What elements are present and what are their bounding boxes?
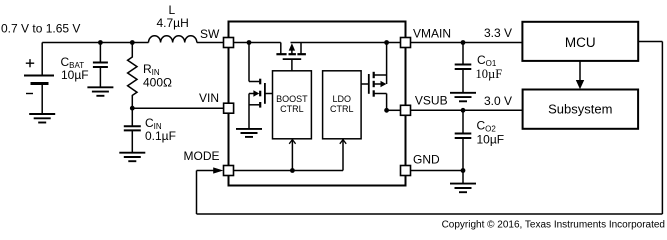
block: LDO CTRL — [323, 71, 362, 139]
ground (GND net) — [450, 184, 476, 193]
wire: Q2 to VMAIN pin — [291, 42, 401, 44]
svg-text:CTRL: CTRL — [280, 104, 304, 114]
node: SW internal junction — [247, 40, 252, 45]
node: C_BAT junction — [98, 40, 103, 45]
wire: arrow into BOOST CTRL — [289, 140, 295, 144]
svg-text:10µF: 10µF — [61, 68, 89, 82]
wire: MODE loop left vertical — [196, 171, 198, 215]
svg-text:MCU: MCU — [565, 35, 596, 50]
wire: battery positive rail to SW — [42, 42, 223, 44]
transistor Q2 boost rectifier FET — [276, 43, 306, 71]
resistor R_IN — [128, 43, 137, 109]
svg-text:Copyright © 2016, Texas Instru: Copyright © 2016, Texas Instruments Inco… — [442, 219, 665, 230]
svg-text:0.7 V to 1.65 V: 0.7 V to 1.65 V — [1, 22, 80, 36]
capacitor C_O1 — [455, 43, 472, 93]
wire: MODE loop right vertical — [661, 42, 663, 215]
svg-text:3.0 V: 3.0 V — [484, 94, 512, 108]
ground (internal, Q1 source) — [236, 129, 262, 137]
pin VMAIN — [401, 38, 411, 48]
svg-text:LDO: LDO — [333, 94, 352, 104]
capacitor C_IN — [124, 108, 141, 153]
pin MODE — [224, 166, 234, 176]
ground (C_BAT) — [87, 87, 113, 96]
node: R_IN junction — [130, 40, 135, 45]
transistor Q1 low-side NMOS — [249, 43, 273, 129]
wire: VSUB internal to pin — [387, 109, 401, 111]
wire: MODE pin internal distribution — [234, 139, 344, 170]
svg-text:0.1µF: 0.1µF — [145, 129, 176, 143]
wire: GND pin to ground — [411, 170, 464, 172]
svg-text:Subsystem: Subsystem — [548, 101, 612, 116]
svg-text:CTRL: CTRL — [330, 104, 354, 114]
svg-text:VSUB: VSUB — [415, 94, 448, 108]
svg-text:10µF: 10µF — [476, 67, 503, 81]
transistor Q3 LDO pass FET — [361, 43, 387, 111]
pin SW — [224, 38, 234, 48]
ground (battery) — [29, 114, 55, 123]
battery B1 — [24, 43, 54, 115]
node: C_O1 junction — [461, 40, 466, 45]
wire: MCU to Subsystem arrow — [579, 61, 581, 81]
wire: MODE feedback into MODE pin with arrow — [197, 170, 215, 172]
pin VIN — [224, 103, 234, 113]
node: VIN net wire — [130, 106, 135, 111]
svg-text:3.3 V: 3.3 V — [484, 26, 512, 40]
ground (C_O1) — [450, 93, 476, 102]
wire: MODE loop bottom horizontal — [197, 213, 663, 215]
node: C_O2 junction — [461, 108, 466, 113]
svg-text:MODE: MODE — [184, 149, 220, 163]
wire: VSUB to Subsystem — [411, 109, 523, 111]
node: VMAIN internal junction — [384, 40, 389, 45]
wire: VMAIN to MCU — [411, 42, 523, 44]
svg-text:SW: SW — [200, 27, 220, 41]
pin VSUB — [401, 105, 411, 115]
node: MODE internal junction — [290, 168, 295, 173]
svg-text:L: L — [169, 3, 176, 17]
wire: VIN node to VIN pin — [132, 107, 223, 109]
capacitor C_O2 — [455, 110, 472, 170]
block: MCU — [522, 22, 638, 61]
svg-text:4.7µH: 4.7µH — [157, 16, 189, 30]
pin GND — [401, 166, 411, 176]
wire: SW pin to boost FETs — [234, 42, 281, 44]
block: Subsystem — [523, 90, 639, 129]
ground (C_IN) — [119, 153, 145, 162]
block: BOOST CTRL — [273, 71, 312, 139]
svg-text:400Ω: 400Ω — [143, 76, 172, 90]
IC U1 body — [229, 22, 406, 186]
wire: MCU to MODE loop — [638, 41, 662, 43]
inductor L — [149, 36, 197, 43]
wire: GND down lead — [462, 171, 464, 184]
svg-text:VIN: VIN — [199, 91, 219, 105]
node: GND junction — [461, 168, 466, 173]
svg-text:GND: GND — [413, 152, 440, 166]
svg-text:BOOST: BOOST — [276, 94, 308, 104]
svg-text:10µF: 10µF — [477, 132, 505, 146]
capacitor C_BAT — [93, 43, 108, 88]
wire: arrow into LDO CTRL — [340, 140, 346, 144]
node: VSUB internal junction — [384, 108, 389, 113]
svg-text:VMAIN: VMAIN — [413, 27, 451, 41]
